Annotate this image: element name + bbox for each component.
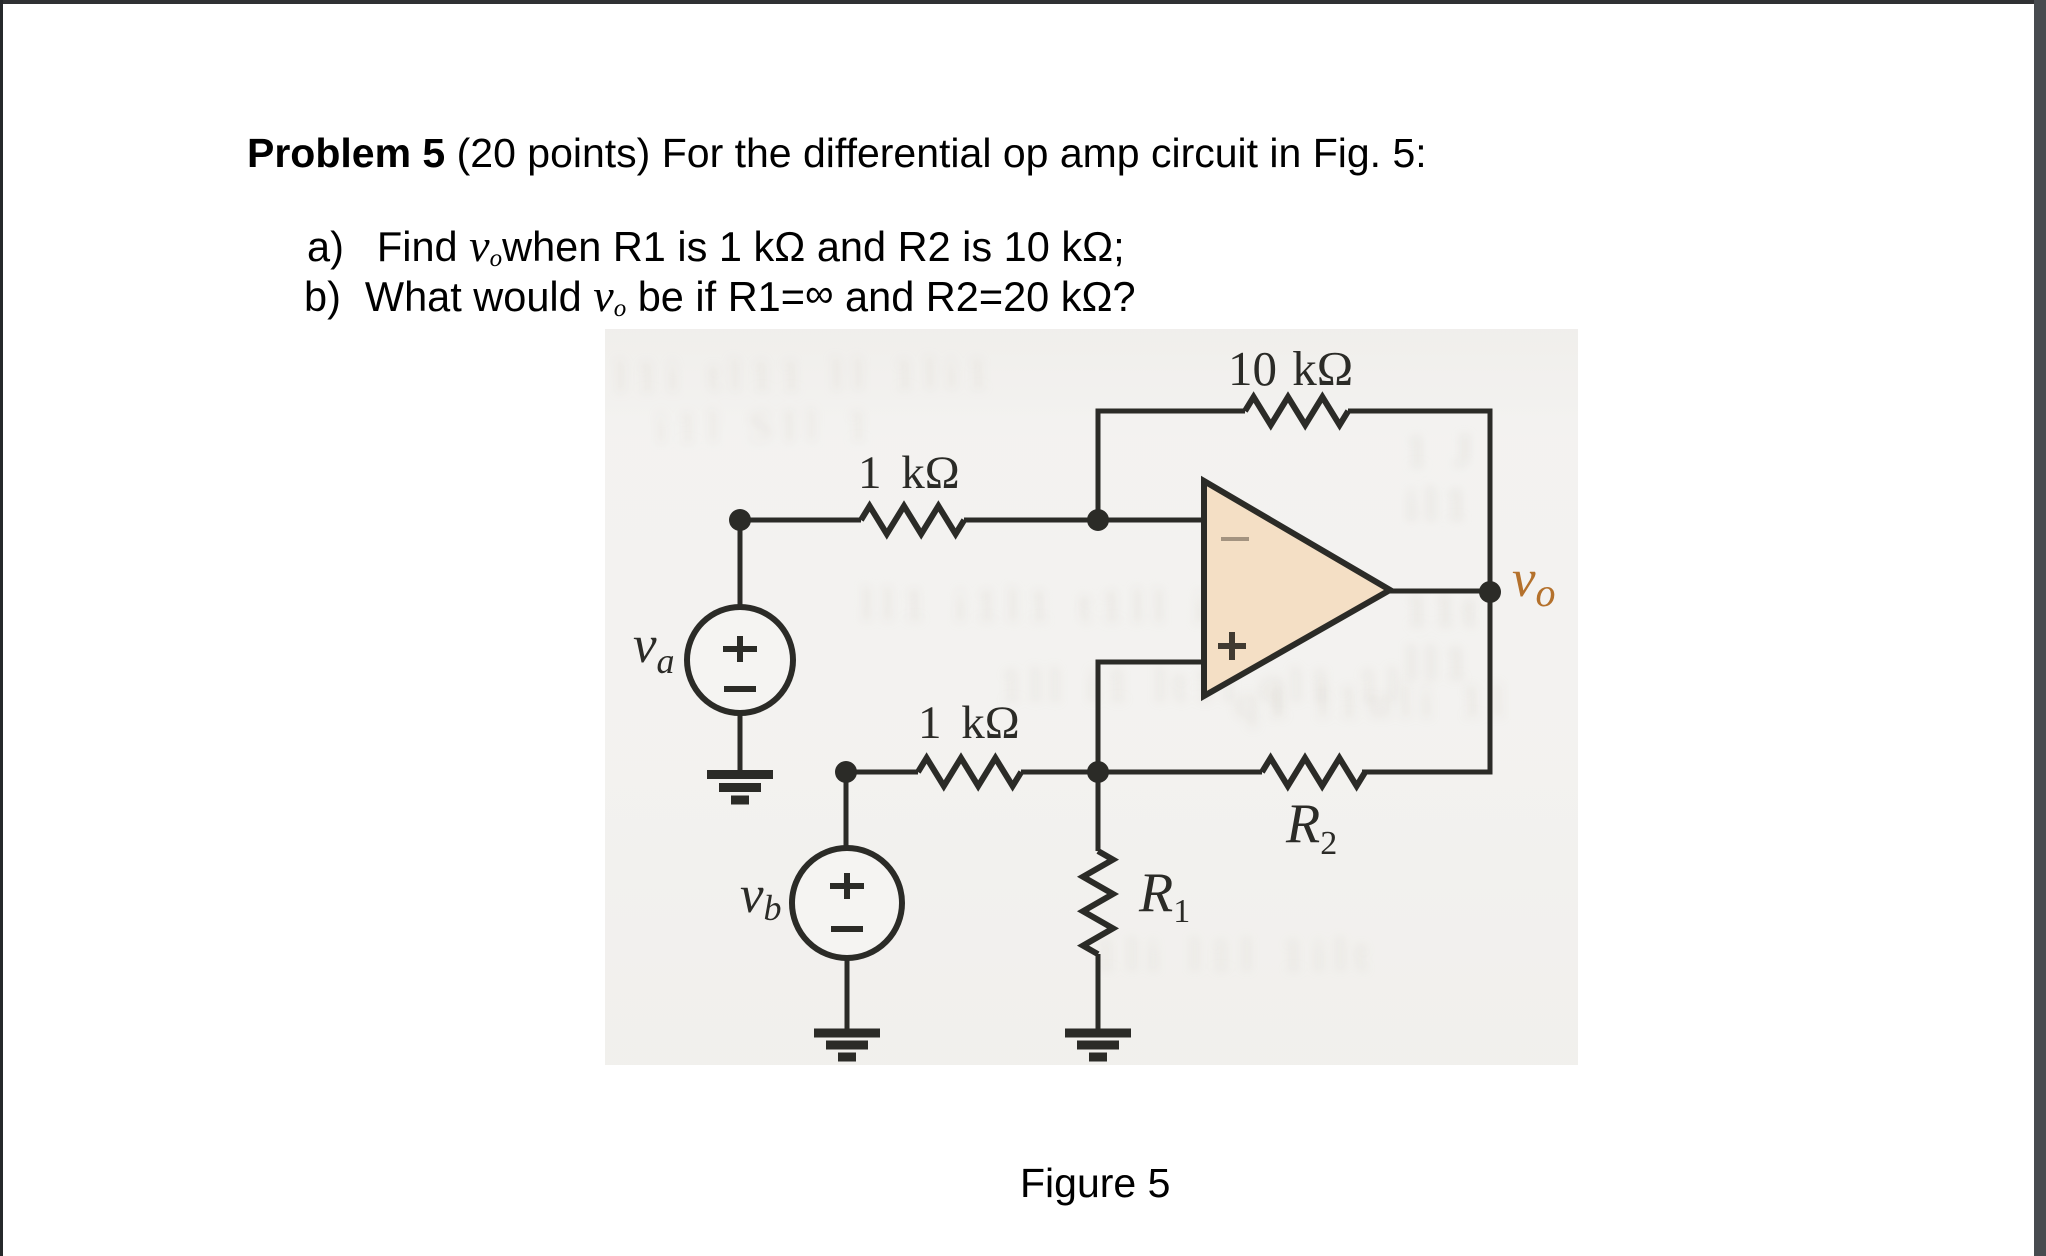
wire: vb to ground <box>845 957 850 1030</box>
label vo (orange) <box>1512 553 1556 619</box>
resistor 1k (top, input) <box>861 506 964 534</box>
ground (va) <box>707 775 773 801</box>
resistor R1 (vertical) <box>1083 851 1113 954</box>
inverting junction dot <box>1087 509 1109 531</box>
ground (vb) <box>814 1033 880 1057</box>
wire: op-amp + input to junction B <box>1098 662 1204 772</box>
va minus sign <box>724 686 756 692</box>
wire: R2 to junction B <box>1098 770 1262 775</box>
page top border <box>0 0 2046 4</box>
source va circle <box>687 607 793 713</box>
source vb circle <box>792 848 902 958</box>
ground (R1) <box>1065 1033 1131 1057</box>
problem title <box>247 129 1427 177</box>
item a <box>307 223 1125 271</box>
resistor 1k (lower) <box>918 758 1021 786</box>
wire: node A to 1k resistor to inverting junction <box>740 518 861 523</box>
wire: junction B to 1k lower resistor <box>1021 770 1098 775</box>
wire: op-amp output to node <box>1390 589 1490 594</box>
wire: junction B down to R1 <box>1096 772 1101 851</box>
label R1 <box>1139 865 1190 940</box>
node A junction dot <box>729 509 751 531</box>
label 10 kOhm <box>1228 344 1353 393</box>
wire: resistor to junction to op-amp inverting input <box>964 518 1204 523</box>
op-amp U1 <box>1204 481 1390 696</box>
page right border <box>2034 0 2046 1256</box>
label 1 kOhm (top) <box>858 450 960 497</box>
wire: junction up to feedback rail, left segment <box>1098 411 1245 520</box>
figure caption <box>1020 1159 1170 1207</box>
vb minus sign <box>831 926 863 932</box>
wire: node C down to source vb <box>844 772 849 849</box>
wire: va to ground <box>738 712 743 774</box>
wire: node A down to source va <box>738 520 743 608</box>
node C dot <box>835 761 857 783</box>
label vb <box>740 869 782 935</box>
resistor R2 <box>1262 758 1365 786</box>
resistor 10k (feedback) <box>1245 397 1348 425</box>
wire: output node down right rail to R2 row right segment <box>1362 592 1490 772</box>
output node vo dot <box>1479 581 1501 603</box>
label 1 kOhm (lower) <box>918 700 1020 747</box>
op-amp minus marking <box>1221 537 1249 541</box>
item b <box>304 273 1136 321</box>
label R2 <box>1286 796 1337 872</box>
label va <box>633 619 675 688</box>
wire: feedback rail right segment and down to output node <box>1348 411 1490 592</box>
wire: 1k lower to node C <box>846 770 918 775</box>
vb plus sign <box>830 873 864 899</box>
va plus sign <box>723 636 757 662</box>
page left border <box>0 0 3 1256</box>
wire: R1 to ground <box>1096 954 1101 1030</box>
junction B dot <box>1087 761 1109 783</box>
op-amp plus marking <box>1218 632 1246 660</box>
scanned figure background <box>605 329 1578 1065</box>
